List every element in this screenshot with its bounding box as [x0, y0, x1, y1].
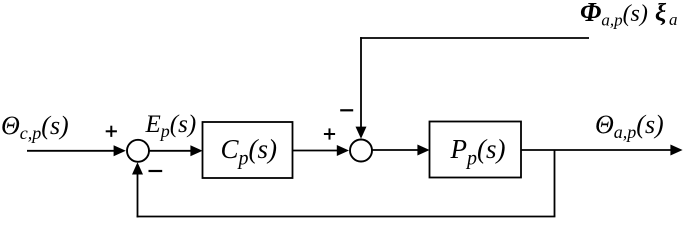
- minus sign at S1 feedback input: [149, 170, 163, 172]
- arrowhead: input into summing junction S1: [114, 145, 126, 156]
- arrowhead: feedback into S1 (pointing up): [132, 162, 143, 174]
- arrowhead: disturbance into S2 (pointing down): [356, 127, 367, 139]
- wire: disturbance feed horizontal segment at top: [360, 37, 589, 39]
- svg-text:Θa,p(s): Θa,p(s): [595, 110, 664, 142]
- wire: S2 to plant block: [372, 149, 419, 151]
- summing junction S1: [127, 140, 149, 162]
- wire: feedback vertical segment up into S1: [137, 173, 139, 217]
- wire: reference input into summing junction S1: [27, 150, 115, 152]
- arrowhead: system output: [670, 145, 682, 156]
- block Pp (plant): [430, 122, 522, 178]
- block Cp (controller): [203, 122, 293, 178]
- wire: disturbance feed vertical segment down into S2: [360, 37, 362, 128]
- wire: feedback bottom horizontal segment: [137, 216, 556, 218]
- arrowhead: into controller block: [190, 145, 202, 156]
- svg-text:Φa,p(s)ξa: Φa,p(s)ξa: [580, 0, 678, 30]
- minus sign at S2 disturbance input: [340, 109, 353, 111]
- wire: S1 to controller block: [149, 150, 192, 152]
- summing junction S2: [350, 140, 372, 162]
- svg-text:Ep(s): Ep(s): [145, 111, 197, 141]
- arrowhead: into summing junction S2: [337, 145, 349, 156]
- svg-text:Θc,p(s): Θc,p(s): [1, 111, 69, 143]
- arrowhead: into plant block: [417, 145, 429, 156]
- wire: plant output line to the right: [521, 149, 672, 151]
- node: feedback takeoff point: [554, 150, 556, 217]
- plus sign at S1 input: [106, 126, 117, 137]
- wire: controller output to summing junction S2: [293, 150, 339, 152]
- plus sign at S2 input: [324, 128, 335, 139]
